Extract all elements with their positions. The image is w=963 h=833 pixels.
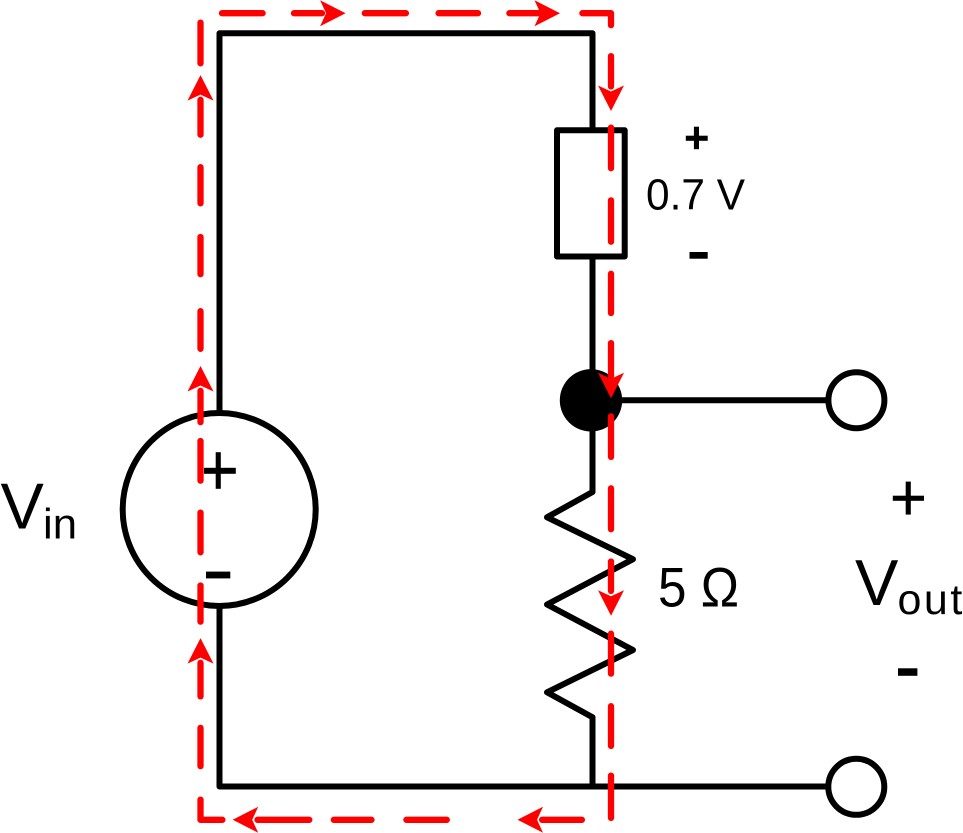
svg-text:in: in [43,501,77,549]
svg-text:V: V [1,470,45,543]
svg-text:out: out [898,576,963,624]
svg-text:V: V [855,546,899,619]
svg-text:5 Ω: 5 Ω [658,555,739,618]
svg-text:0.7 V: 0.7 V [646,171,746,220]
